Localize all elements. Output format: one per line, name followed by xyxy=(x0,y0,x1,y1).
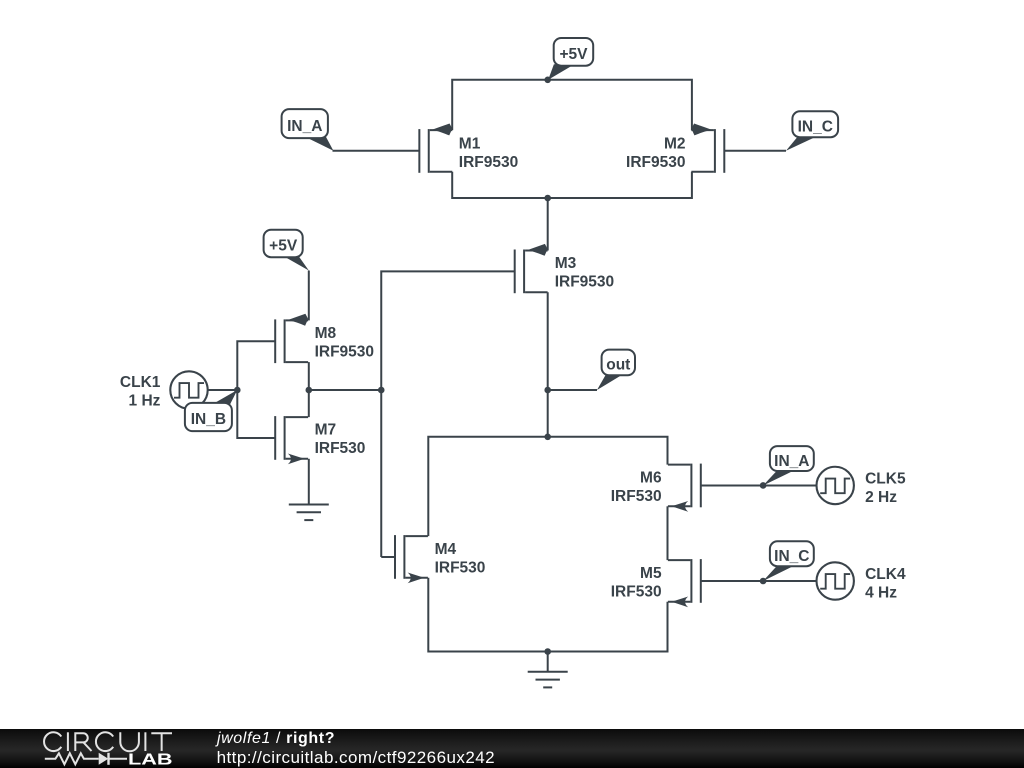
ground below bottom rail xyxy=(528,652,568,688)
svg-text:+5V: +5V xyxy=(559,46,588,63)
wire drain rail below M1/M2 xyxy=(452,172,692,198)
letter C xyxy=(96,732,113,751)
flag IN_A lower xyxy=(763,470,795,485)
node drain rail to M3 xyxy=(544,195,551,202)
letter T xyxy=(151,733,172,751)
letter C xyxy=(44,732,61,751)
wire +5V to M8 source xyxy=(308,271,310,321)
transistor M7 IRF530 NMOS xyxy=(275,416,308,464)
wire big box left-bottom rail xyxy=(428,578,667,652)
flag IN_A top-left xyxy=(306,136,334,151)
svg-text:CLK4: CLK4 xyxy=(865,566,906,583)
source CLK1 square wave xyxy=(170,371,207,408)
node M8/M7 junction xyxy=(306,387,313,394)
wire top +5V rail xyxy=(452,80,692,130)
transistor M3 IRF9530 PMOS xyxy=(515,244,548,293)
transistor M8 IRF9530 PMOS xyxy=(275,314,308,363)
svg-text:IRF9530: IRF9530 xyxy=(626,154,685,171)
node big box bottom xyxy=(544,648,551,655)
svg-text:M4: M4 xyxy=(435,541,457,558)
footer title line xyxy=(217,730,335,748)
flag IN_B xyxy=(212,390,237,405)
wire M4 gate feed xyxy=(381,556,395,558)
svg-text:out: out xyxy=(606,357,630,374)
svg-text:IRF530: IRF530 xyxy=(611,583,662,600)
flag out xyxy=(597,374,623,390)
node gate bus CLK1 xyxy=(234,387,241,394)
CircuitLab logo xyxy=(0,729,200,768)
power flag +5V left xyxy=(284,255,309,270)
svg-text:IN_C: IN_C xyxy=(774,548,809,565)
transistor M2 IRF9530 PMOS mirrored xyxy=(691,124,724,173)
wire M8 drain to M7 drain xyxy=(308,362,310,417)
svg-text:M1: M1 xyxy=(459,136,481,153)
node M5 gate flag xyxy=(760,578,767,585)
power flag +5V top xyxy=(548,64,574,80)
svg-text:M6: M6 xyxy=(640,469,662,486)
diode xyxy=(99,753,109,765)
svg-text:IRF9530: IRF9530 xyxy=(459,154,518,171)
svg-text:M8: M8 xyxy=(315,325,337,342)
svg-text:CLK1: CLK1 xyxy=(120,374,161,391)
svg-text:M7: M7 xyxy=(315,422,337,439)
transistor M5 IRF530 NMOS mirrored xyxy=(668,559,701,607)
node left column mid xyxy=(378,387,385,394)
svg-text:IRF9530: IRF9530 xyxy=(555,274,614,291)
wire node to M3 source xyxy=(547,198,549,251)
wire big box top rail xyxy=(428,437,667,536)
svg-text:IN_B: IN_B xyxy=(191,411,226,428)
wire out stub xyxy=(548,389,597,391)
svg-text:IN_A: IN_A xyxy=(287,118,322,135)
wire M3 gate to left column xyxy=(381,271,514,557)
flag IN_C top-right xyxy=(786,136,817,151)
svg-text:M2: M2 xyxy=(664,136,686,153)
transistor M4 IRF530 NMOS xyxy=(395,535,428,583)
letter I xyxy=(67,732,69,751)
svg-text:IRF530: IRF530 xyxy=(435,559,486,576)
footer bar xyxy=(0,729,1024,768)
transistor M1 IRF9530 PMOS xyxy=(419,124,452,173)
svg-text:IRF530: IRF530 xyxy=(315,440,366,457)
svg-text:1 Hz: 1 Hz xyxy=(129,393,161,410)
node +5V rail junction xyxy=(544,77,551,84)
resistor zigzag lead-in xyxy=(45,753,99,764)
node out junction xyxy=(544,387,551,394)
source CLK5 square wave xyxy=(817,467,854,504)
source CLK4 square wave xyxy=(817,562,854,599)
letter U xyxy=(120,732,139,751)
svg-text:IRF9530: IRF9530 xyxy=(315,344,374,361)
svg-text:IN_C: IN_C xyxy=(798,118,833,135)
wire M2 gate xyxy=(724,150,786,152)
wire M1 gate xyxy=(333,150,420,152)
svg-text:+5V: +5V xyxy=(269,238,298,255)
wire M6 gate xyxy=(701,484,817,486)
wire junction to left column xyxy=(309,389,381,391)
wire gate bus M8/M7 xyxy=(237,341,275,438)
wire M6-M5 rail xyxy=(667,506,669,560)
footer url line xyxy=(217,748,495,768)
ground below M7 xyxy=(289,459,329,520)
wire M3 drain down xyxy=(547,292,549,437)
svg-text:M3: M3 xyxy=(555,255,577,272)
wire M5 gate xyxy=(701,580,817,582)
flag IN_C lower xyxy=(763,565,795,581)
svg-text:IN_A: IN_A xyxy=(774,453,809,470)
node big box top xyxy=(544,434,551,441)
node M6 gate flag xyxy=(760,482,767,489)
svg-text:M5: M5 xyxy=(640,565,662,582)
wire CLK1 to gate bus xyxy=(208,389,238,391)
svg-text:LAB: LAB xyxy=(128,751,173,768)
svg-text:IRF530: IRF530 xyxy=(611,488,662,505)
letter R xyxy=(75,733,91,751)
letter I xyxy=(144,732,146,751)
transistor M6 IRF530 NMOS mirrored xyxy=(668,464,701,512)
svg-text:4 Hz: 4 Hz xyxy=(865,584,897,601)
svg-text:CLK5: CLK5 xyxy=(865,470,906,487)
svg-text:2 Hz: 2 Hz xyxy=(865,489,897,506)
